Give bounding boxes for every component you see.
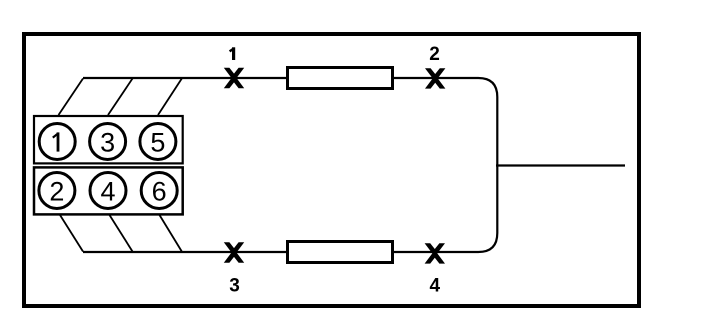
- svg-text:5: 5: [150, 128, 165, 158]
- svg-text:3: 3: [100, 128, 115, 158]
- svg-text:4: 4: [430, 276, 441, 297]
- svg-text:3: 3: [229, 276, 240, 297]
- svg-text:2: 2: [49, 177, 64, 207]
- svg-text:2: 2: [429, 44, 440, 65]
- svg-text:4: 4: [100, 177, 115, 207]
- svg-text:6: 6: [152, 177, 167, 207]
